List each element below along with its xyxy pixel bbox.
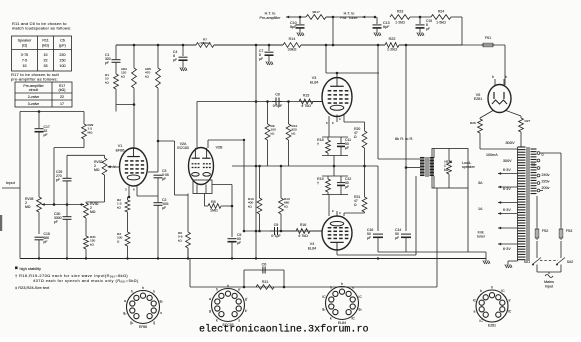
svg-text:g': g' bbox=[245, 297, 248, 301]
wire R12 bottom bbox=[288, 140, 290, 166]
switch SA1 bbox=[533, 258, 541, 265]
svg-text:μF: μF bbox=[345, 146, 349, 150]
screen resistor R21 bbox=[364, 166, 366, 197]
svg-text:pF: pF bbox=[105, 61, 109, 65]
svg-text:‡ R23,R24-See text: ‡ R23,R24-See text bbox=[15, 285, 50, 290]
svg-text:(Ω): (Ω) bbox=[22, 44, 27, 48]
wire bbox=[157, 205, 159, 258]
resistor R12 bbox=[286, 124, 297, 140]
svg-text:17: 17 bbox=[60, 102, 64, 106]
node bbox=[283, 286, 286, 289]
svg-text:300V: 300V bbox=[505, 140, 515, 145]
wire bbox=[221, 205, 232, 207]
wire bbox=[66, 205, 68, 217]
capacitor C29 270pF bbox=[63, 177, 72, 179]
svg-text:100: 100 bbox=[59, 64, 65, 68]
svg-text:150: 150 bbox=[59, 59, 65, 63]
node bbox=[280, 230, 283, 233]
scan artifact left edge bbox=[0, 215, 2, 231]
wire V2B anode riser bbox=[207, 140, 209, 148]
svg-text:pF: pF bbox=[54, 220, 58, 224]
svg-text:0·1μF: 0·1μF bbox=[273, 104, 283, 108]
fuse FS3 bbox=[559, 229, 563, 238]
loudspeaker box with R25 bbox=[432, 149, 468, 189]
wire tone box top bbox=[54, 147, 84, 149]
wire main HT rail bbox=[301, 44, 385, 46]
svg-text:circuit: circuit bbox=[29, 88, 38, 92]
node from R17 bbox=[332, 44, 335, 47]
valve V4 EL84 bbox=[322, 216, 352, 250]
node R5 top bbox=[157, 44, 160, 47]
svg-text:Input: Input bbox=[545, 285, 553, 289]
svg-text:μF: μF bbox=[173, 58, 177, 62]
capacitor C3 0.05uF bbox=[154, 174, 163, 176]
node C15 bbox=[419, 16, 422, 19]
capacitor C7 8uF bbox=[268, 45, 270, 51]
node on splitter line bbox=[333, 165, 336, 168]
wire bbox=[520, 132, 522, 147]
base diagram EL84 bbox=[326, 287, 359, 320]
base diagram EF86 bbox=[127, 291, 160, 324]
wire smoothing earth bus bbox=[378, 251, 486, 253]
resistor R7 bbox=[196, 38, 214, 48]
svg-text:kΩ: kΩ bbox=[292, 131, 297, 135]
wire bbox=[405, 168, 407, 232]
V2 cathode box bbox=[193, 180, 212, 194]
svg-text:3A: 3A bbox=[478, 181, 483, 185]
svg-text:Input: Input bbox=[6, 180, 16, 185]
gang link dashes bbox=[540, 260, 558, 262]
capacitor C15 8uF bbox=[419, 17, 421, 24]
svg-text:IC: IC bbox=[501, 289, 505, 293]
wire to V5 anode bbox=[504, 45, 506, 85]
svg-text:h: h bbox=[341, 282, 343, 286]
wire V2B anode drop bbox=[243, 140, 245, 231]
T2 mains taps bbox=[537, 152, 540, 155]
wire Y arrow into V1 grid bbox=[112, 166, 120, 168]
svg-text:6·3V: 6·3V bbox=[503, 168, 511, 172]
svg-text:a: a bbox=[124, 299, 126, 303]
svg-text:kΩ: kΩ bbox=[271, 131, 276, 135]
svg-text:3·75: 3·75 bbox=[21, 53, 28, 57]
svg-text:Y: Y bbox=[113, 164, 116, 169]
wires mains taps to fuses bbox=[540, 152, 561, 154]
wire T1 primary tap bbox=[406, 167, 420, 169]
svg-text:IC: IC bbox=[479, 319, 483, 323]
potentiometer RV30 2M bbox=[85, 202, 87, 203]
wire bbox=[560, 241, 562, 258]
wire bbox=[66, 155, 68, 178]
svg-text:IC: IC bbox=[508, 310, 512, 314]
wire feedback to cathode bbox=[189, 259, 191, 288]
ground below C10 bbox=[297, 31, 304, 36]
wire C1 column top bbox=[115, 45, 117, 59]
node bbox=[363, 165, 366, 168]
svg-text:k: k bbox=[216, 318, 218, 322]
resistor R31 bbox=[84, 235, 96, 249]
wire V1 grid link bbox=[116, 104, 134, 106]
wire V2A grid drop bbox=[174, 141, 176, 195]
resistor R27 bbox=[519, 116, 531, 132]
capacitor C8 0.1uF bbox=[275, 98, 277, 106]
wire main HT rail bbox=[214, 44, 283, 46]
svg-text:200v: 200v bbox=[542, 186, 550, 190]
fuse FS2 bbox=[535, 229, 539, 238]
resistor R10 bbox=[248, 166, 262, 214]
wiper bus junction bbox=[53, 203, 55, 205]
wire HT to T1 bbox=[377, 45, 379, 159]
svg-text:8k R. to R.: 8k R. to R. bbox=[395, 136, 413, 141]
wire bbox=[115, 89, 117, 112]
svg-text:k: k bbox=[330, 316, 332, 320]
wire HT rail bbox=[326, 16, 375, 18]
svg-text:a: a bbox=[473, 310, 475, 314]
svg-text:kΩ: kΩ bbox=[444, 168, 449, 172]
svg-text:electronicaonline.3xforum.ro: electronicaonline.3xforum.ro bbox=[199, 324, 369, 336]
resistor R1 bbox=[105, 73, 118, 89]
svg-text:R11: R11 bbox=[262, 280, 269, 284]
resistor R24 bbox=[431, 15, 462, 20]
resistor R29 bbox=[82, 112, 94, 140]
svg-text:SA1: SA1 bbox=[524, 260, 531, 264]
wire speaker return bbox=[467, 188, 469, 252]
svg-text:a': a' bbox=[508, 298, 511, 302]
svg-text:1·5kΩ: 1·5kΩ bbox=[436, 21, 446, 25]
svg-text:4·7kΩ: 4·7kΩ bbox=[301, 104, 311, 108]
mains input bbox=[536, 265, 538, 273]
cathode network R19 C12 bbox=[322, 175, 348, 177]
svg-text:1·2kΩ: 1·2kΩ bbox=[387, 48, 397, 52]
node tone box bbox=[53, 203, 56, 206]
svg-text:15: 15 bbox=[22, 64, 26, 68]
svg-text:0·1μF: 0·1μF bbox=[271, 234, 281, 238]
node C7 bbox=[268, 44, 271, 47]
svg-text:s: s bbox=[238, 318, 240, 322]
svg-text:kΩ: kΩ bbox=[248, 204, 253, 208]
wire main HT rail left bbox=[116, 44, 196, 46]
V5 anode leads to R26 R27 bbox=[480, 111, 493, 119]
wire bbox=[85, 249, 87, 259]
svg-text:6·3V: 6·3V bbox=[503, 247, 511, 251]
wire R12 top bbox=[288, 102, 290, 125]
svg-text:240v: 240v bbox=[542, 173, 550, 177]
capacitor C17 32uF bbox=[38, 112, 40, 129]
svg-text:μF: μF bbox=[162, 206, 166, 210]
svg-text:a: a bbox=[352, 286, 354, 290]
svg-text:22: 22 bbox=[60, 95, 64, 99]
resistor R14 bbox=[283, 43, 301, 48]
resistor R3 bbox=[117, 232, 130, 246]
svg-text:F.M. Tuner: F.M. Tuner bbox=[340, 16, 358, 20]
wire T1 secondary top bbox=[433, 149, 435, 159]
note high stability bbox=[15, 267, 18, 270]
svg-text:a': a' bbox=[238, 288, 241, 292]
resistor R13 bbox=[279, 166, 290, 214]
svg-text:SA2: SA2 bbox=[567, 260, 574, 264]
resistor R17 bbox=[306, 10, 333, 19]
ground below C7 bbox=[266, 60, 273, 65]
svg-text:(150kΩ): (150kΩ) bbox=[199, 41, 210, 45]
svg-text:1MΩ: 1MΩ bbox=[210, 209, 218, 213]
svg-text:R23: R23 bbox=[397, 10, 404, 14]
node HT1 bbox=[299, 16, 302, 19]
svg-text:μF: μF bbox=[395, 236, 399, 240]
capacitor C16 50uF bbox=[373, 233, 383, 235]
resistor R9 bbox=[265, 124, 276, 140]
base diagram EZ81 bbox=[476, 290, 508, 322]
svg-text:220: 220 bbox=[59, 53, 65, 57]
cathode network R18 C11 bbox=[322, 136, 348, 138]
svg-text:μF: μF bbox=[237, 241, 241, 245]
wire bbox=[187, 248, 189, 259]
svg-text:R8: R8 bbox=[211, 200, 216, 204]
svg-text:EZ81: EZ81 bbox=[488, 324, 496, 328]
wire T1 secondary bottom bbox=[433, 176, 435, 188]
svg-text:h: h bbox=[330, 286, 332, 290]
wire R9 bottom bbox=[267, 140, 269, 166]
svg-text:6·3V: 6·3V bbox=[503, 208, 511, 212]
wire bbox=[83, 139, 85, 148]
svg-text:g: g bbox=[209, 309, 211, 313]
svg-text:k': k' bbox=[245, 309, 248, 313]
node R9 bbox=[266, 100, 269, 103]
node bbox=[255, 230, 258, 233]
svg-text:†: † bbox=[317, 181, 319, 185]
svg-text:(μF): (μF) bbox=[59, 44, 66, 48]
svg-text:b: b bbox=[505, 75, 507, 79]
node R4/R1 bbox=[133, 103, 136, 106]
table: pre-amplifier R17 bbox=[15, 82, 72, 107]
wire bbox=[157, 178, 159, 202]
wire main earth rail bbox=[20, 258, 486, 260]
wire centre HT/feedback column bbox=[255, 45, 257, 259]
svg-text:EZ81: EZ81 bbox=[474, 97, 483, 101]
svg-text:kΩ: kΩ bbox=[178, 238, 183, 242]
svg-text:IC: IC bbox=[358, 295, 362, 299]
node bbox=[258, 165, 261, 168]
svg-text:h: h bbox=[491, 286, 493, 290]
node grid feed bbox=[157, 140, 160, 143]
V1 pin leads bbox=[128, 186, 130, 197]
wire bbox=[259, 214, 261, 231]
svg-text:tuner: tuner bbox=[477, 235, 486, 239]
feedback line bbox=[190, 286, 437, 288]
capacitor C13 8uF bbox=[376, 17, 378, 24]
svg-text:C9: C9 bbox=[274, 223, 279, 227]
svg-text:EF86: EF86 bbox=[139, 325, 147, 329]
wire V4 grid line bbox=[244, 230, 322, 232]
capacitor C1 320pF bbox=[112, 59, 121, 61]
wire bbox=[115, 63, 117, 75]
node C4 bbox=[182, 44, 185, 47]
svg-text:pF: pF bbox=[44, 240, 48, 244]
wire R4 to V1 top bbox=[133, 88, 135, 148]
wire to V4 bbox=[328, 195, 330, 217]
node C5/R8 bbox=[231, 205, 234, 208]
svg-text:3-valve: 3-valve bbox=[28, 102, 40, 106]
ground PSU bbox=[483, 259, 490, 264]
wire bbox=[231, 185, 233, 238]
V4 pin leads bbox=[336, 211, 338, 216]
svg-text:2-valve: 2-valve bbox=[28, 95, 40, 99]
wire V2B cathode link bbox=[212, 184, 232, 186]
ground below C13 bbox=[374, 31, 381, 36]
resistor R8 1M bbox=[204, 194, 206, 207]
svg-text:33kΩ: 33kΩ bbox=[288, 48, 297, 52]
svg-text:IC: IC bbox=[351, 316, 355, 320]
svg-text:6·3V: 6·3V bbox=[503, 187, 511, 191]
capacitor C18 680pF bbox=[35, 236, 44, 238]
resistor R4 bbox=[121, 45, 136, 88]
ground below C4 bbox=[180, 66, 187, 71]
svg-text:h: h bbox=[216, 288, 218, 292]
svg-text:h: h bbox=[227, 284, 229, 288]
V5 heater pins bbox=[494, 79, 496, 86]
svg-text:4·7kΩ: 4·7kΩ bbox=[298, 234, 308, 238]
wire bbox=[127, 212, 129, 232]
V3 pin leads bbox=[328, 116, 330, 137]
wire stub V1 anode bbox=[148, 171, 158, 173]
svg-text:k: k bbox=[153, 290, 155, 294]
feedback takeoff bbox=[436, 188, 438, 287]
svg-text:C6: C6 bbox=[60, 39, 65, 43]
T2 bottom earth bbox=[508, 260, 518, 262]
svg-text:1A: 1A bbox=[478, 207, 483, 211]
svg-text:Mains: Mains bbox=[544, 280, 554, 284]
svg-text:EF86: EF86 bbox=[116, 148, 125, 152]
capacitor C9 0.1uF bbox=[274, 227, 276, 235]
wire bbox=[485, 252, 487, 259]
base diagram ECC83 bbox=[212, 289, 245, 322]
wire bbox=[66, 181, 68, 205]
svg-text:match loudspeaker as follows:: match loudspeaker as follows: bbox=[12, 26, 71, 31]
node V3 anode feed bbox=[325, 44, 328, 47]
valve V2A V2B ECC83 bbox=[189, 148, 214, 185]
svg-text:h: h bbox=[142, 286, 144, 290]
wire bbox=[410, 16, 431, 18]
resistor R16 bbox=[280, 229, 322, 234]
svg-text:R15: R15 bbox=[303, 94, 310, 98]
HT output line 100mA bbox=[480, 148, 517, 150]
wire bbox=[405, 238, 407, 253]
svg-text:MΩ: MΩ bbox=[90, 210, 96, 214]
wire cathode junction bbox=[333, 156, 335, 177]
svg-text:100mA: 100mA bbox=[486, 153, 498, 157]
node bbox=[255, 165, 258, 168]
svg-text:R26: R26 bbox=[470, 121, 476, 125]
wire R17 junction down bbox=[332, 17, 334, 45]
wire C18 to earth bbox=[38, 240, 40, 259]
wire bbox=[127, 246, 129, 259]
wire RV32 bottom to RV30 top bbox=[86, 201, 105, 203]
svg-text:EL84: EL84 bbox=[308, 246, 317, 250]
node C29/C30 bbox=[66, 203, 69, 206]
svg-text:IC: IC bbox=[473, 298, 477, 302]
svg-text:high stability: high stability bbox=[20, 266, 41, 271]
wire R5 anode column bbox=[157, 88, 159, 141]
svg-text:g: g bbox=[153, 320, 155, 324]
potentiometer RV32 2M with wiper Y bbox=[104, 155, 106, 158]
resistor R26 bbox=[470, 118, 482, 133]
wire bbox=[344, 212, 365, 214]
svg-text:kΩ: kΩ bbox=[117, 205, 122, 209]
svg-text:FS2: FS2 bbox=[542, 229, 549, 233]
svg-text:15: 15 bbox=[43, 53, 47, 57]
capacitor C5 50uF bbox=[228, 238, 237, 240]
svg-text:pre-amplifier as follows:: pre-amplifier as follows: bbox=[11, 77, 58, 82]
wire HT smoothing link bbox=[405, 45, 407, 168]
wire anode node bbox=[157, 141, 159, 172]
svg-text:C6: C6 bbox=[262, 263, 267, 267]
svg-text:s: s bbox=[160, 311, 162, 315]
svg-text:kΩ: kΩ bbox=[284, 204, 289, 208]
wire input shield left bbox=[19, 112, 21, 259]
svg-text:8μF: 8μF bbox=[383, 25, 390, 29]
capacitor C30 3300pF bbox=[63, 216, 72, 218]
svg-text:R16: R16 bbox=[300, 223, 307, 227]
wire bbox=[280, 214, 282, 231]
svg-text:μF: μF bbox=[162, 177, 166, 181]
V3 anode to HT bbox=[325, 45, 327, 73]
transformer T1 output bbox=[420, 157, 425, 159]
svg-text:R22: R22 bbox=[389, 37, 396, 41]
svg-text:kΩ: kΩ bbox=[145, 74, 150, 78]
feedback network C6 R11 loop bbox=[244, 269, 284, 271]
svg-text:R27: R27 bbox=[525, 119, 531, 123]
switch SA2 bbox=[557, 258, 565, 265]
svg-text:h: h bbox=[480, 289, 482, 293]
svg-text:speaker: speaker bbox=[462, 165, 476, 169]
ground below C15 bbox=[417, 31, 424, 36]
ground T2 bbox=[505, 263, 512, 268]
wire C30 to earth rail bbox=[66, 219, 68, 258]
svg-text:μF: μF bbox=[44, 133, 48, 137]
wire tone box second bbox=[67, 154, 105, 156]
svg-text:220v: 220v bbox=[542, 180, 550, 184]
wire bbox=[187, 248, 189, 259]
table: speaker matching bbox=[12, 36, 72, 71]
svg-text:MΩ: MΩ bbox=[88, 130, 94, 134]
node V2 HT bbox=[255, 44, 258, 47]
svg-text:μF: μF bbox=[367, 236, 371, 240]
valve V5 EZ81 bbox=[488, 85, 511, 113]
node bbox=[243, 230, 246, 233]
wire wiper bus bbox=[42, 204, 85, 206]
node bbox=[128, 196, 131, 199]
node R4 top bbox=[133, 44, 136, 47]
node C13 bbox=[374, 16, 377, 19]
svg-text:R24: R24 bbox=[438, 10, 445, 14]
wire bbox=[536, 241, 538, 258]
svg-text:h: h bbox=[131, 290, 133, 294]
svg-text:0: 0 bbox=[542, 153, 544, 157]
node bbox=[280, 165, 283, 168]
resistor R5 bbox=[145, 45, 160, 88]
wire bbox=[479, 133, 481, 149]
capacitor C14 50uF bbox=[401, 233, 411, 235]
wire bbox=[175, 194, 189, 196]
node V3 anode bbox=[336, 72, 339, 75]
svg-text:b: b bbox=[492, 75, 494, 79]
wire phase splitter line bbox=[232, 165, 378, 167]
node smoothing 1 bbox=[377, 44, 380, 47]
wire V2A anode riser bbox=[196, 102, 198, 149]
svg-text:8μF: 8μF bbox=[290, 25, 297, 29]
svg-text:R11: R11 bbox=[42, 39, 49, 43]
valve V3 EL84 bbox=[322, 78, 352, 117]
svg-text:FS3: FS3 bbox=[566, 229, 573, 233]
wire V2 cathode left bbox=[187, 194, 189, 233]
